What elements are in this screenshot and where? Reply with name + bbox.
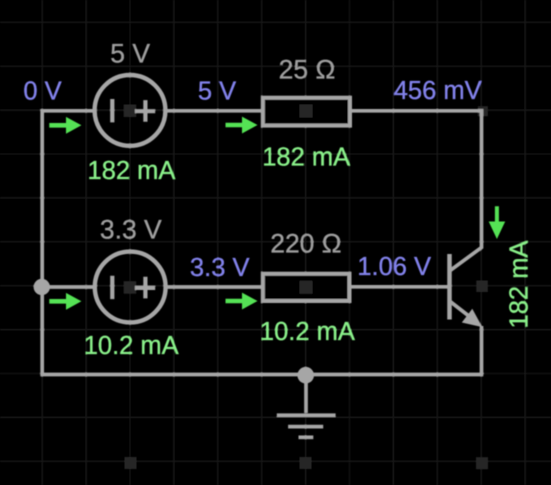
svg-text:0 V: 0 V [23, 77, 61, 105]
svg-text:456 mV: 456 mV [394, 77, 482, 105]
svg-text:220 Ω: 220 Ω [270, 228, 341, 258]
svg-text:10.2 mA: 10.2 mA [84, 332, 179, 360]
svg-text:182 mA: 182 mA [88, 157, 176, 185]
svg-text:10.2 mA: 10.2 mA [260, 318, 355, 346]
svg-text:182 mA: 182 mA [505, 241, 533, 329]
svg-text:3.3 V: 3.3 V [100, 215, 162, 245]
svg-text:182 mA: 182 mA [262, 144, 350, 172]
svg-text:3.3 V: 3.3 V [190, 254, 250, 282]
svg-text:25 Ω: 25 Ω [279, 54, 336, 84]
svg-text:5 V: 5 V [110, 39, 150, 69]
svg-text:1.06 V: 1.06 V [357, 253, 431, 281]
svg-text:5 V: 5 V [198, 77, 236, 105]
